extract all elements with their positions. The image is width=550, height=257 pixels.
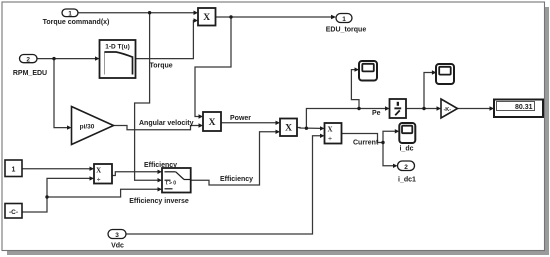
svg-text:2: 2 bbox=[404, 164, 408, 171]
gain2 -K- bbox=[441, 99, 458, 118]
svg-text:X: X bbox=[327, 126, 332, 134]
wire junction to i_dc scope bbox=[383, 131, 395, 142]
svg-text:Efficiency inverse: Efficiency inverse bbox=[129, 198, 189, 205]
wire X1 output to EDU_torque bbox=[216, 16, 332, 18]
svg-text:Angular velocity: Angular velocity bbox=[139, 120, 194, 127]
svg-text:÷: ÷ bbox=[97, 177, 101, 184]
junction dot torque command bbox=[148, 11, 151, 14]
svg-text:1-D T(u): 1-D T(u) bbox=[105, 44, 130, 51]
svg-text:i_dc1: i_dc1 bbox=[398, 177, 416, 184]
constant -C- bbox=[5, 204, 22, 219]
svg-text:80.31: 80.31 bbox=[515, 104, 533, 111]
svg-text:RPM_EDU: RPM_EDU bbox=[13, 70, 47, 77]
scope1 bbox=[359, 61, 377, 81]
svg-text:Pe: Pe bbox=[372, 110, 381, 117]
inport 3 oval Vdc bbox=[108, 230, 126, 239]
arrowhead into gain2 bbox=[437, 106, 442, 110]
arrowhead into X1 input2 bbox=[194, 18, 199, 22]
gain pi/30 bbox=[72, 107, 114, 145]
wire X1 output branch down to power product bbox=[195, 17, 231, 117]
svg-text:X: X bbox=[96, 167, 101, 175]
arrowhead into X2 input1 bbox=[199, 114, 204, 118]
svg-text:Efficiency: Efficiency bbox=[220, 176, 253, 183]
wire to scope2 bbox=[424, 73, 432, 109]
divide1 block bbox=[94, 164, 112, 184]
svg-text:Torque command(x): Torque command(x) bbox=[43, 19, 110, 26]
svg-text:3: 3 bbox=[115, 232, 119, 239]
svg-text:1: 1 bbox=[68, 10, 72, 17]
svg-text:Torque: Torque bbox=[150, 63, 173, 70]
svg-text:pi/30: pi/30 bbox=[80, 123, 95, 130]
wire divide Pe to gain2 bbox=[406, 108, 437, 110]
svg-text:Vdc: Vdc bbox=[111, 243, 124, 250]
arrowhead into divide1 input2 bbox=[90, 176, 95, 180]
arrowhead into switch input3 bbox=[158, 187, 163, 191]
product X2 (power) bbox=[203, 112, 221, 131]
junction dot after divide bbox=[422, 107, 425, 110]
arrowhead into i_dc scope bbox=[395, 129, 400, 133]
arrowhead into current divide input2 bbox=[320, 134, 325, 138]
wire gain2 to display bbox=[458, 108, 490, 110]
wire Pe riser bbox=[306, 109, 385, 129]
junction dot current bbox=[381, 141, 384, 144]
wire angular velocity: gain to power product bbox=[114, 126, 199, 130]
arrowhead into switch input1 bbox=[158, 170, 163, 174]
wire oval2 to lookup table bbox=[37, 58, 95, 60]
scope i_dc bbox=[399, 123, 415, 143]
arrowhead into lookup table bbox=[95, 56, 100, 60]
outport 2 oval i_dc1 bbox=[398, 161, 415, 171]
svg-text:1: 1 bbox=[342, 16, 346, 23]
junction dot -C- bbox=[45, 195, 48, 198]
wire efficiency: switch to X3 input2 bbox=[191, 132, 276, 185]
product X1 bbox=[198, 8, 216, 26]
scope2 bbox=[436, 64, 454, 84]
svg-text:i_dc: i_dc bbox=[399, 146, 413, 153]
arrowhead into i_dc1 oval bbox=[393, 164, 398, 168]
junction dot RPM_EDU bbox=[52, 57, 55, 60]
arrowhead into switch input2 bbox=[158, 178, 163, 182]
wire current: divide to junction bbox=[342, 134, 384, 143]
wire junction to i_dc1 outport bbox=[383, 143, 393, 166]
outport 1 oval EDU_torque bbox=[336, 14, 352, 23]
arrowhead into divide1 input1 bbox=[90, 167, 95, 171]
arrowhead into X1 input1 bbox=[194, 11, 199, 16]
svg-text:÷: ÷ bbox=[328, 136, 332, 143]
wire -C- to divide1 bbox=[22, 178, 90, 212]
wire oval1 to product X1 bbox=[78, 12, 194, 14]
svg-text:Efficiency: Efficiency bbox=[144, 162, 177, 169]
wire power: X2 to X3 bbox=[221, 122, 276, 124]
svg-text:2: 2 bbox=[26, 56, 30, 63]
wire oval2 branch down to gain pi/30 bbox=[54, 59, 67, 128]
arrowhead into X3 input2 bbox=[276, 130, 281, 134]
constant 1 bbox=[5, 160, 22, 177]
svg-text:Power: Power bbox=[230, 115, 251, 122]
arrowhead into scope1 bbox=[355, 67, 360, 71]
svg-text:X: X bbox=[203, 13, 210, 23]
arrowhead into gain pi/30 bbox=[67, 125, 72, 129]
display 80.31 bbox=[494, 100, 543, 118]
wire torque: table to X1 input2 bbox=[136, 21, 194, 59]
arrowhead into scope2 bbox=[432, 70, 437, 74]
switch Efficiency inverse bbox=[162, 168, 191, 193]
svg-text:Current: Current bbox=[353, 139, 379, 146]
wire to scope1 bbox=[351, 70, 359, 109]
svg-text:1: 1 bbox=[12, 166, 16, 173]
lookup table 1-D T(u) bbox=[100, 40, 136, 78]
svg-text:-K-: -K- bbox=[443, 107, 451, 113]
arrowhead into X2 input2 bbox=[199, 123, 204, 127]
arrowhead into EDU_torque oval bbox=[331, 15, 336, 19]
inport 1 oval bbox=[62, 9, 78, 17]
svg-text:X: X bbox=[209, 118, 216, 128]
wire constant 1 to divide1 bbox=[22, 168, 90, 170]
divide block current (X over divide) bbox=[325, 123, 342, 144]
junction dot power product output bbox=[305, 127, 308, 130]
arrowhead into X3 input1 bbox=[276, 121, 281, 125]
junction dot Pe bbox=[357, 107, 360, 110]
arrowhead into display bbox=[490, 106, 495, 110]
svg-text:t > 0: t > 0 bbox=[166, 181, 176, 187]
arrowhead into divide Pe bbox=[385, 106, 390, 110]
svg-text:EDU_torque: EDU_torque bbox=[326, 27, 367, 34]
svg-text:-C-: -C- bbox=[9, 209, 18, 216]
wire X3 output to current divide bbox=[297, 127, 320, 130]
junction dot EDU_torque bbox=[229, 15, 232, 18]
inport 2 oval bbox=[20, 55, 38, 64]
wire torque command branch down to switch control bbox=[135, 13, 158, 181]
wire divide1 to switch input1 bbox=[112, 172, 158, 176]
divide block Pe bbox=[390, 99, 407, 118]
product X3 bbox=[280, 119, 297, 137]
wire Vdc to current divide bbox=[126, 136, 320, 234]
wire -C- branch to switch input3 bbox=[47, 189, 158, 197]
svg-text:X: X bbox=[285, 124, 292, 134]
arrowhead into current divide input1 bbox=[320, 126, 325, 130]
